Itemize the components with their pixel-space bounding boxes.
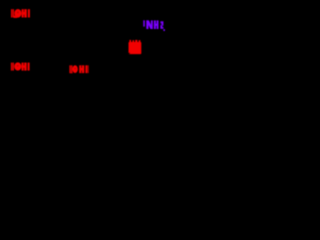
hydroxyl label HO (bottom-middle, O3)	[69, 65, 88, 73]
amine label NH2 (top-right, N1)	[146, 20, 165, 31]
hydroxyl label HO (mid-left, O2)	[11, 62, 30, 70]
bond stub to N1	[143, 20, 145, 26]
carbonyl O blob (right, O4)	[129, 40, 142, 54]
hydroxyl label HO (top-left, O1)	[11, 9, 30, 18]
